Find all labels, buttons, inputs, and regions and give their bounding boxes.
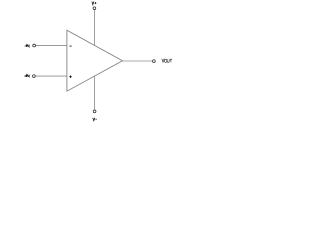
terminal circle -IN <box>33 44 36 47</box>
wire VOUT output <box>123 60 153 62</box>
terminal circle V- <box>93 110 96 113</box>
terminal circle V+ <box>93 7 96 10</box>
wire +IN input <box>35 75 67 77</box>
wire V+ supply <box>94 10 96 46</box>
label V- <box>93 118 97 121</box>
label +IN <box>25 75 30 78</box>
op-amp U1 triangle body <box>67 30 123 91</box>
inverting input minus marker <box>70 45 72 47</box>
non-inverting input plus marker <box>69 75 72 78</box>
label -IN <box>25 45 30 48</box>
label VOUT <box>162 59 172 63</box>
wire V- supply <box>94 76 96 110</box>
label V+ <box>92 2 97 5</box>
terminal circle VOUT <box>153 60 156 63</box>
wire -IN input <box>35 45 67 47</box>
terminal circle +IN <box>33 75 36 78</box>
